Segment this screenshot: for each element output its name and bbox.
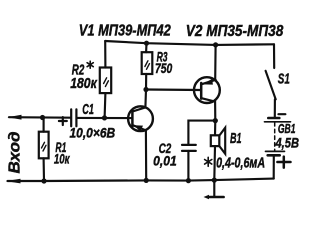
wire emitter node to C2 (188, 121, 215, 145)
wire R2 bottom lead (104, 93, 107, 118)
junction dot bottom R1 (41, 178, 46, 183)
junction dot bottom V1 (144, 178, 149, 183)
battery GB1 bottom cell (266, 150, 285, 152)
svg-text:4,5В: 4,5В (275, 134, 299, 150)
wire node to V2 base (146, 88, 201, 91)
wire R3 bottom lead to node (145, 74, 147, 90)
wire speaker top lead (214, 121, 216, 136)
wire input top with arrow (9, 116, 71, 119)
battery GB1 top cell (268, 117, 279, 120)
junction dot rail R3 (144, 41, 149, 46)
svg-text:10,0×6В: 10,0×6В (70, 124, 116, 140)
wire battery bottom lead (273, 157, 275, 179)
svg-text:S1: S1 (278, 71, 290, 88)
ground bar arrow (204, 195, 210, 199)
ground stub (213, 180, 215, 196)
junction dot bottom speaker (212, 178, 217, 183)
svg-text:Вход: Вход (6, 131, 23, 173)
capacitor C2 (182, 145, 196, 151)
resistor R2 (100, 68, 111, 94)
svg-text:0,01: 0,01 (153, 153, 177, 169)
V1 emitter arrow (134, 125, 143, 131)
V2 emitter arrow (202, 79, 213, 85)
arrowhead input bottom (6, 179, 21, 184)
junction dot R3 bottom (143, 87, 148, 92)
capacitor C1 (71, 109, 76, 126)
svg-text:0,4-0,6мА: 0,4-0,6мА (216, 155, 265, 171)
battery plus sign (277, 157, 290, 168)
junction dot V2 emitter node (213, 118, 218, 123)
transistor V2 (194, 77, 220, 103)
switch S1 (273, 44, 275, 68)
svg-text:750: 750 (155, 60, 172, 76)
arrowhead input top (7, 115, 21, 120)
wire V2 collector riser to rail (214, 45, 217, 80)
wire C2 bottom lead (187, 151, 189, 181)
svg-text:10к: 10к (54, 151, 70, 167)
wire input bottom rail (8, 179, 274, 181)
battery link dashed (274, 123, 276, 151)
svg-text:V2 МП35-МП38: V2 МП35-МП38 (186, 23, 284, 40)
svg-text:В1: В1 (230, 131, 242, 147)
wire top supply rail (105, 41, 274, 45)
asterisk speaker note (205, 157, 212, 166)
wire V1 collector riser (133, 90, 146, 112)
transistor V1 (128, 106, 153, 131)
wire V2 emitter top (202, 80, 216, 84)
wire V1 base lead (77, 117, 132, 119)
wire V1 emitter (133, 125, 146, 180)
resistor R1 (43, 117, 45, 131)
junction dot bottom C2 (186, 178, 191, 183)
junction dot R2 base (102, 115, 107, 120)
svg-text:C1: C1 (82, 101, 94, 118)
asterisk R2 (87, 61, 93, 68)
battery minus sign (278, 113, 285, 115)
wire speaker bottom lead (213, 146, 216, 180)
svg-text:180к: 180к (70, 76, 97, 92)
junction dot rail V2 (213, 42, 218, 47)
resistor R3 (142, 52, 153, 74)
loudspeaker B1 (211, 135, 220, 146)
junction dot input top (40, 115, 45, 120)
wire V2 bottom arm (202, 98, 215, 120)
wire R3 top lead (145, 43, 148, 52)
wire rail left drop to R2 (104, 41, 106, 68)
plus sign C1 (59, 117, 67, 125)
svg-text:V1 МП39-МП42: V1 МП39-МП42 (79, 22, 171, 39)
